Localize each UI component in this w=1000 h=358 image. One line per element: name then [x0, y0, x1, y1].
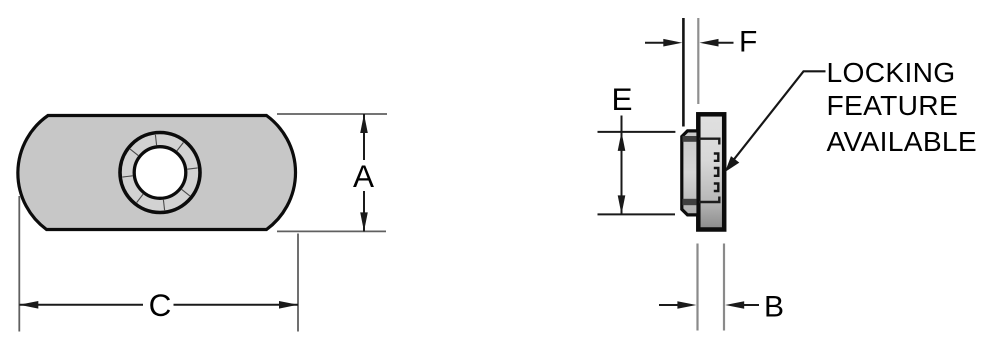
dim C extension line left	[18, 196, 20, 332]
dim E arrow down	[618, 195, 626, 214]
dim A extension line top	[277, 113, 387, 115]
nut pilot (side view)	[682, 131, 698, 215]
dim C extension line right	[297, 234, 299, 332]
dim B line right	[737, 304, 759, 306]
dim B arrow right-pointing	[677, 301, 696, 309]
nut flange (side view)	[698, 114, 724, 229]
tab edge line upper-right (side view)	[697, 18, 699, 104]
dim F line left	[645, 42, 670, 44]
thread hidden line bottom	[699, 197, 719, 203]
svg-text:F: F	[739, 26, 757, 59]
dim F line right	[712, 42, 734, 44]
dim A arrow down	[360, 212, 368, 231]
tab edge line upper-left (side view)	[682, 18, 685, 127]
dim B line left	[659, 304, 684, 306]
svg-text:LOCKING: LOCKING	[827, 56, 956, 88]
dim C arrow right	[279, 301, 298, 309]
dim A arrow up	[360, 114, 368, 133]
threaded hole inner circle	[134, 147, 186, 199]
dim B arrow left-pointing	[725, 301, 744, 309]
svg-text:C: C	[149, 287, 172, 323]
dim E extension line top	[598, 131, 676, 133]
dim E arrow up	[618, 132, 626, 151]
leader line to locking feature	[732, 71, 826, 162]
locking feature dashes	[714, 154, 719, 192]
pilot chamfer band bottom	[683, 199, 697, 205]
dim E line	[621, 116, 623, 215]
tab body (top view, stadium shape)	[18, 116, 296, 230]
thread hidden line top	[699, 139, 719, 145]
dim E extension line bottom	[598, 213, 676, 215]
dim C arrow left	[19, 301, 38, 309]
dim F arrow right-pointing	[663, 39, 682, 47]
svg-text:E: E	[611, 81, 632, 117]
svg-text:FEATURE: FEATURE	[827, 89, 959, 121]
dim F arrow left-pointing	[700, 39, 719, 47]
svg-text:A: A	[353, 158, 374, 194]
svg-text:B: B	[764, 291, 784, 324]
pilot chamfer band top	[683, 136, 697, 142]
svg-text:AVAILABLE: AVAILABLE	[827, 125, 978, 157]
tab edge line lower-right (side view)	[723, 244, 725, 331]
threaded hole outer circle	[120, 133, 200, 213]
thread tick marks	[122, 135, 197, 210]
dim A extension line bottom	[277, 230, 386, 232]
dim C line	[19, 304, 298, 306]
leader arrowhead	[725, 156, 739, 172]
tab edge line lower-left (side view)	[696, 244, 698, 331]
dim A line	[363, 114, 365, 231]
